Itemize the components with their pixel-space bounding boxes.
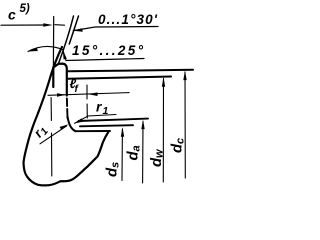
svg-text:f: f bbox=[75, 84, 80, 95]
svg-text:0...1°30': 0...1°30' bbox=[98, 12, 158, 27]
svg-text:15°...25°: 15°...25° bbox=[72, 43, 144, 58]
svg-text:a: a bbox=[131, 145, 143, 151]
svg-text:5): 5) bbox=[20, 3, 30, 15]
svg-text:w: w bbox=[154, 148, 166, 158]
svg-text:c: c bbox=[8, 7, 16, 23]
svg-text:c: c bbox=[175, 138, 187, 144]
svg-text:1: 1 bbox=[103, 105, 109, 117]
svg-text:s: s bbox=[110, 162, 122, 168]
